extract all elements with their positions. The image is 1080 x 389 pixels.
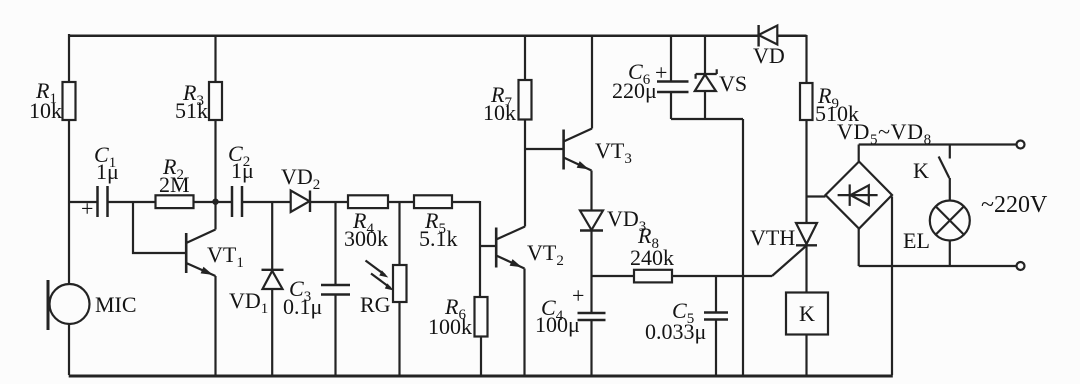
svg-text:VT3: VT3 <box>595 138 632 167</box>
label C5 <box>645 298 706 344</box>
svg-text:2M: 2M <box>159 172 190 197</box>
wire bridge top link <box>858 145 860 164</box>
label VT3 <box>595 138 632 167</box>
svg-text:VT2: VT2 <box>527 240 564 269</box>
label R3 <box>175 80 208 123</box>
svg-text:VD1: VD1 <box>229 288 268 317</box>
capacitor C1 <box>98 186 108 217</box>
label R4 <box>344 208 388 251</box>
label C3 <box>283 276 322 319</box>
wire right AC bottom rail <box>859 265 1017 267</box>
label C1 <box>81 142 119 221</box>
capacitor C3 <box>321 285 350 375</box>
label R9 <box>815 83 859 126</box>
wire R4 to R5 <box>388 201 414 203</box>
svg-text:VD: VD <box>753 43 785 68</box>
label C6 <box>612 59 667 103</box>
svg-text:EL: EL <box>903 228 930 253</box>
svg-text:5.1k: 5.1k <box>419 226 458 251</box>
svg-text:+: + <box>655 60 667 85</box>
wire RG branch <box>398 202 400 265</box>
svg-text:240k: 240k <box>630 245 674 270</box>
svg-text:VT1: VT1 <box>207 242 244 271</box>
svg-text:~220V: ~220V <box>981 192 1048 218</box>
wire C1 row <box>69 201 98 203</box>
label VT2 <box>527 240 564 269</box>
resistor R2 <box>156 195 194 208</box>
wire return column <box>742 119 744 375</box>
svg-text:100k: 100k <box>428 314 472 339</box>
wire bottom rail <box>69 375 893 378</box>
diode VD2 <box>291 191 310 213</box>
resistor R9 <box>800 35 813 223</box>
wire top rail <box>69 35 807 38</box>
svg-text:220μ: 220μ <box>612 78 657 103</box>
relay coil K <box>786 293 828 376</box>
label RG <box>360 292 391 317</box>
label VT1 <box>207 242 244 271</box>
label R6 <box>428 294 472 339</box>
label K switch <box>913 158 929 183</box>
wire C3 branch <box>334 202 336 285</box>
capacitor C6 <box>657 35 689 119</box>
wire C6 VS return row <box>671 118 743 120</box>
wire bridge right to bottom rail <box>891 197 893 376</box>
svg-text:1μ: 1μ <box>96 159 119 184</box>
resistor R4 <box>348 195 388 208</box>
node A junction dot <box>212 199 218 205</box>
capacitor C2 <box>232 186 242 217</box>
label R8 <box>630 223 674 270</box>
wire VT1 base branch <box>133 202 186 253</box>
resistor R5 <box>414 195 452 208</box>
wire C2 to VD2 <box>242 201 291 203</box>
wire C1 to R2 <box>108 201 156 203</box>
label EL <box>903 228 930 253</box>
svg-text:100μ: 100μ <box>535 312 580 337</box>
label R1 <box>29 78 62 123</box>
svg-text:VS: VS <box>719 71 747 96</box>
svg-text:+: + <box>572 283 584 308</box>
svg-text:0.033μ: 0.033μ <box>645 319 706 344</box>
diode VD3 <box>580 211 603 277</box>
svg-text:VD2: VD2 <box>281 164 320 193</box>
svg-text:1μ: 1μ <box>231 158 254 183</box>
wire R8 row <box>592 275 635 277</box>
wire bridge bottom link <box>858 229 860 266</box>
label VD5~VD8 <box>837 119 932 148</box>
wire R2 to node <box>194 201 216 203</box>
label MIC <box>95 292 137 317</box>
label VS <box>719 71 747 96</box>
zener diode VS <box>695 35 717 119</box>
wire VT2 base branch <box>480 245 496 247</box>
label 220V <box>981 192 1048 218</box>
svg-text:MIC: MIC <box>95 292 137 317</box>
switch K <box>939 145 950 201</box>
diode VD <box>759 25 778 47</box>
svg-text:+: + <box>81 196 93 221</box>
microphone MIC <box>48 280 90 330</box>
resistor R1 <box>63 82 76 120</box>
label VD2 <box>281 164 320 193</box>
svg-text:51k: 51k <box>175 98 208 123</box>
transistor VT2 <box>496 120 525 376</box>
resistor R7 <box>519 35 532 120</box>
wire left rail <box>68 34 70 375</box>
wire R5 to corner <box>452 201 480 297</box>
capacitor C4 <box>578 276 606 375</box>
resistor R3 <box>214 35 216 82</box>
svg-text:300k: 300k <box>344 226 388 251</box>
label VTH <box>750 225 795 250</box>
svg-text:10k: 10k <box>29 98 62 123</box>
label R7 <box>483 82 516 125</box>
wire R8 to gate <box>672 275 772 277</box>
label VD3 <box>607 206 646 235</box>
wire VTH to bridge <box>807 195 826 197</box>
svg-text:K: K <box>913 158 929 183</box>
label R5 <box>419 208 458 251</box>
label C4 <box>535 283 584 337</box>
svg-text:VTH: VTH <box>750 225 795 250</box>
lamp EL <box>930 201 970 267</box>
label R2 <box>159 154 190 197</box>
svg-text:RG: RG <box>360 292 391 317</box>
label K relay <box>799 301 815 326</box>
label VD <box>753 43 785 68</box>
wire VD2 to R4 <box>310 201 348 203</box>
label VD1 <box>229 288 268 317</box>
transistor VT3 <box>564 35 592 211</box>
resistor R8 <box>634 270 672 283</box>
wire VT3 base branch <box>525 148 564 150</box>
svg-text:K: K <box>799 301 815 326</box>
photoresistor RG <box>366 261 407 376</box>
terminal top right <box>1017 141 1025 149</box>
transistor VT1 <box>186 203 215 375</box>
wire right AC top rail <box>859 143 1017 145</box>
diode VD1 <box>262 270 284 375</box>
svg-text:0.1μ: 0.1μ <box>283 294 322 319</box>
wire VD1 branch <box>271 202 273 270</box>
capacitor C5 <box>704 276 728 375</box>
label C2 <box>228 141 254 183</box>
resistor R6 <box>475 297 488 375</box>
svg-text:10k: 10k <box>483 100 516 125</box>
bridge rectifier VD5-VD8 <box>826 162 893 229</box>
wire node to C2 <box>216 201 233 203</box>
terminal bottom right <box>1017 262 1025 270</box>
thyristor VTH <box>772 223 817 292</box>
